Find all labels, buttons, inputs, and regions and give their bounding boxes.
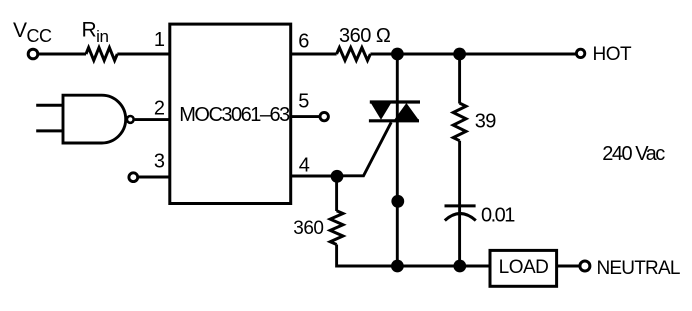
wire Rin to pin 1 [117, 53, 170, 56]
wire pin 3 [138, 176, 170, 179]
wire gate node to resistor 360 [335, 176, 338, 211]
svg-text:360: 360 [293, 218, 323, 239]
svg-text:0.01: 0.01 [481, 204, 515, 226]
resistor 360 gate [330, 211, 343, 245]
terminal pin 3 input [129, 173, 138, 182]
wire pin 4 [291, 175, 337, 178]
junction dot below triac [391, 195, 404, 208]
svg-text:VCC: VCC [13, 19, 52, 46]
NAND gate U1 [36, 95, 134, 143]
terminal NEUTRAL [580, 261, 590, 271]
load box [490, 250, 557, 286]
wire NAND output to pin 2 [135, 118, 170, 121]
svg-text:240 Vac: 240 Vac [602, 143, 665, 165]
wire pin 6 to 360 ohm [291, 53, 337, 56]
wire gate diagonal to triac [337, 122, 391, 176]
svg-text:1: 1 [154, 29, 165, 51]
wire VCC to Rin [38, 53, 86, 56]
svg-text:2: 2 [154, 98, 165, 120]
junction dot bottom left [391, 260, 404, 273]
wire snubber upper [458, 54, 461, 104]
resistor 39 [453, 103, 466, 141]
svg-text:360 Ω: 360 Ω [339, 25, 391, 47]
wire LOAD to NEUTRAL [557, 265, 579, 268]
wire top rail to HOT [370, 53, 576, 56]
wire triac branch vertical [396, 54, 399, 266]
resistor Rin [86, 48, 117, 61]
svg-text:LOAD: LOAD [499, 257, 549, 278]
junction dot top left [391, 48, 404, 61]
resistor 360 ohm [337, 48, 371, 61]
svg-text:HOT: HOT [593, 44, 633, 65]
terminal HOT [576, 49, 584, 57]
terminal pin 5 [320, 112, 328, 120]
terminal VCC [28, 49, 38, 59]
wire snubber lower [458, 141, 461, 266]
junction dot gate node [331, 170, 344, 183]
optocoupler U2 MOC3061-63 box [170, 24, 291, 203]
capacitor 0.01 [445, 206, 476, 221]
wire gate resistor to bottom rail [337, 245, 490, 267]
svg-text:NEUTRAL: NEUTRAL [597, 258, 680, 279]
junction dot top right [453, 48, 466, 61]
svg-text:39: 39 [475, 111, 497, 133]
svg-text:Rin: Rin [82, 18, 109, 46]
svg-text:4: 4 [299, 155, 310, 177]
svg-text:MOC3061–63: MOC3061–63 [179, 104, 290, 126]
svg-text:5: 5 [298, 91, 309, 113]
svg-text:6: 6 [298, 31, 309, 53]
triac Q1 [369, 102, 420, 121]
wire pin 5 [291, 115, 320, 118]
svg-text:3: 3 [154, 151, 165, 173]
junction dot bottom right [453, 260, 466, 273]
